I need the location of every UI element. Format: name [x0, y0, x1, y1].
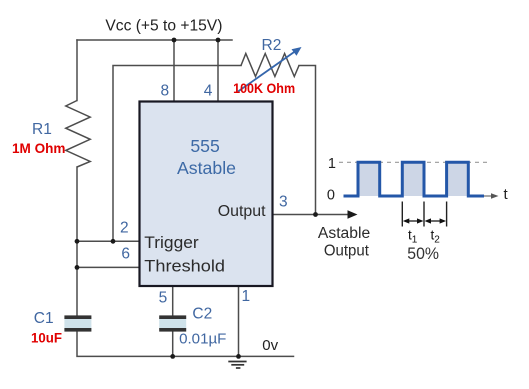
svg-text:Astable: Astable: [177, 158, 236, 178]
svg-text:1M Ohm: 1M Ohm: [12, 141, 66, 156]
svg-text:4: 4: [204, 83, 213, 100]
svg-text:10uF: 10uF: [31, 331, 62, 346]
svg-text:Trigger: Trigger: [144, 233, 199, 252]
svg-text:R2: R2: [262, 37, 282, 54]
svg-text:555: 555: [190, 136, 220, 156]
svg-text:Astable: Astable: [318, 225, 370, 242]
svg-text:50%: 50%: [407, 245, 439, 263]
svg-text:100K Ohm: 100K Ohm: [233, 80, 295, 96]
svg-text:Output: Output: [218, 203, 266, 220]
svg-text:Threshold: Threshold: [144, 257, 225, 276]
svg-text:R1: R1: [32, 121, 52, 138]
svg-text:0.01µF: 0.01µF: [179, 331, 226, 348]
svg-text:Vcc (+5 to +15V): Vcc (+5 to +15V): [105, 17, 222, 34]
svg-text:0: 0: [327, 188, 335, 204]
svg-text:2: 2: [120, 220, 129, 237]
svg-text:1: 1: [328, 156, 336, 172]
svg-text:3: 3: [279, 194, 288, 211]
svg-text:C2: C2: [192, 306, 212, 323]
svg-text:C1: C1: [34, 310, 54, 327]
svg-text:Output: Output: [324, 243, 370, 260]
svg-text:8: 8: [161, 83, 170, 100]
svg-text:6: 6: [121, 245, 130, 262]
svg-text:0v: 0v: [262, 337, 278, 354]
svg-text:5: 5: [159, 290, 168, 307]
svg-text:1: 1: [242, 288, 251, 305]
